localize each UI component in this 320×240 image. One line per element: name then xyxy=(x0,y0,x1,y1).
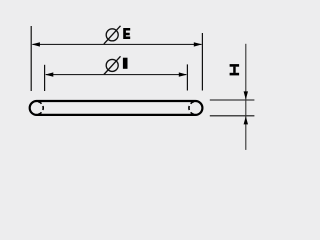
extension line bottom (height H) xyxy=(210,115,255,117)
label letter E xyxy=(123,28,130,39)
dimension line I with arrowheads xyxy=(45,72,187,76)
label letter I xyxy=(123,58,128,69)
O-ring body (stadium outline) xyxy=(30,101,203,115)
extension line left (outer diameter E) xyxy=(30,26,32,91)
dimension line E with arrowheads xyxy=(32,42,202,46)
extension line left (inner diameter I) xyxy=(44,65,46,91)
label diameter symbol for I xyxy=(104,56,121,74)
label letter H (rotated) xyxy=(230,64,240,75)
extension line top (height H) xyxy=(210,99,255,101)
extension line right (inner diameter I) xyxy=(186,64,188,90)
label diameter symbol for E xyxy=(104,26,121,44)
left cross-section dashed arc xyxy=(38,102,43,115)
dimension line H (vertical) xyxy=(245,44,247,150)
right cross-section dashed arc xyxy=(189,102,194,115)
arrowhead H down (at top extension line) xyxy=(244,91,248,99)
extension line right (outer diameter E) xyxy=(201,33,203,91)
arrowhead H up (at bottom extension line) xyxy=(244,116,248,124)
